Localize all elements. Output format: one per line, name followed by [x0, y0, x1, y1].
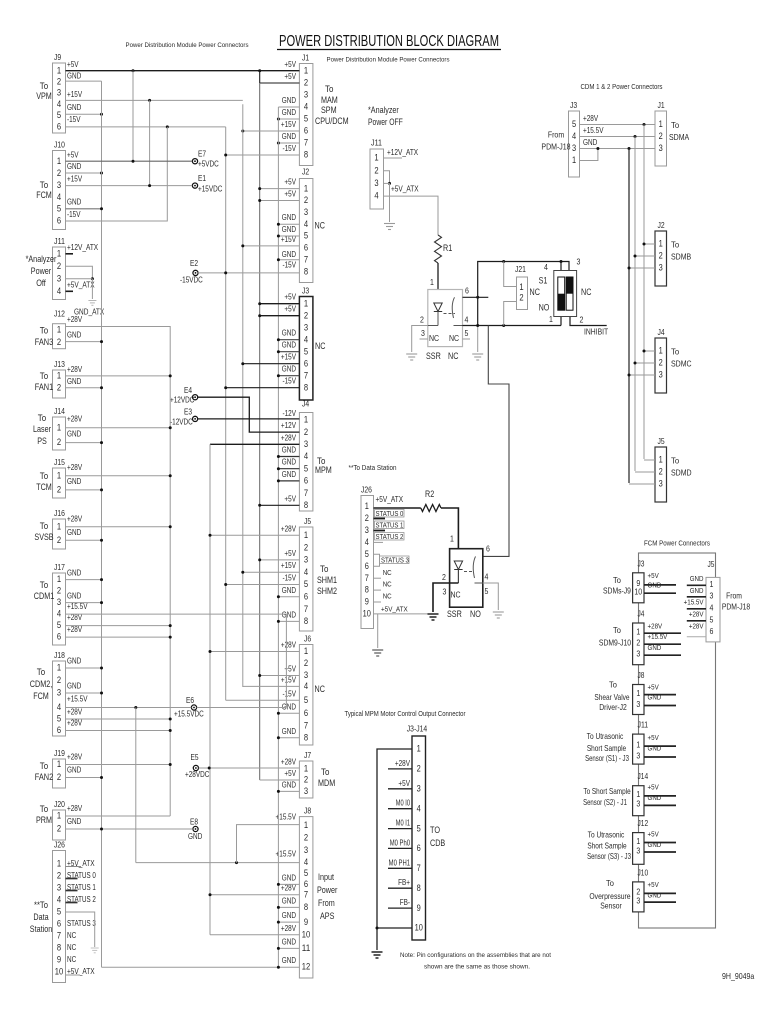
wire main GND vertical bus x=101.5	[101, 81, 103, 967]
wire GND J9.5 to gnd bus	[66, 113, 102, 115]
svg-text:+28V: +28V	[67, 708, 83, 717]
wire +28V J16.1	[66, 526, 171, 528]
svg-text:7: 7	[304, 721, 308, 731]
svg-text:To: To	[606, 878, 614, 888]
svg-text:6: 6	[304, 879, 308, 889]
wire GND J12.2	[66, 341, 102, 343]
svg-text:PRM: PRM	[36, 815, 52, 825]
svg-text:J3: J3	[302, 286, 309, 296]
svg-text:4: 4	[304, 857, 308, 867]
svg-text:Sensor (S3) - J3: Sensor (S3) - J3	[587, 851, 631, 861]
svg-text:GND: GND	[67, 71, 82, 80]
svg-text:2: 2	[659, 357, 663, 367]
wire +28V J19.1	[66, 764, 171, 766]
svg-text:-15V: -15V	[67, 210, 81, 219]
svg-text:To: To	[40, 180, 49, 190]
svg-text:3: 3	[57, 273, 61, 283]
svg-text:Power: Power	[317, 885, 337, 895]
svg-text:SHM2: SHM2	[317, 586, 337, 596]
svg-text:J21: J21	[515, 264, 526, 274]
svg-text:To: To	[671, 347, 679, 357]
svg-text:GND: GND	[282, 727, 297, 736]
wire J6.4 +15V from bus end	[243, 685, 300, 687]
svg-text:Power Distribution Module Powe: Power Distribution Module Power Connecto…	[327, 57, 451, 64]
wire J26ds pin1 to R2	[374, 507, 421, 509]
wire J11 analyzer pin3 to ground	[389, 183, 391, 222]
wire GND stubs J1.4 J1.5 J1.7	[278, 106, 299, 108]
svg-text:GND: GND	[282, 896, 297, 905]
svg-text:+15VDC: +15VDC	[198, 185, 223, 194]
svg-text:7: 7	[304, 488, 308, 498]
svg-text:+28V: +28V	[281, 758, 297, 767]
svg-text:1: 1	[57, 422, 61, 432]
svg-text:Laser: Laser	[33, 424, 51, 434]
svg-text:+28V: +28V	[583, 114, 599, 123]
svg-text:Power OFF: Power OFF	[368, 117, 403, 127]
svg-text:CDM1: CDM1	[34, 591, 54, 601]
svg-text:4: 4	[57, 609, 61, 619]
svg-text:1: 1	[57, 811, 61, 821]
svg-text:GND: GND	[282, 329, 297, 338]
wire J8.1 +15.5V riser	[237, 825, 300, 863]
svg-text:4: 4	[304, 567, 308, 577]
wire +15V vertical x=149.6 to J10.3/E1	[149, 100, 151, 185]
wire top bus y=261.5	[478, 262, 569, 326]
svg-text:SDMC: SDMC	[671, 359, 692, 369]
wire J26 left pin10 stub	[66, 974, 81, 976]
wire +5V link x=133 J9.1-J10.1	[132, 71, 134, 162]
svg-text:10: 10	[634, 587, 642, 597]
svg-text:2: 2	[57, 824, 61, 834]
svg-text:NC: NC	[451, 590, 461, 600]
wire GND J19.2	[66, 777, 102, 779]
svg-text:2: 2	[57, 675, 61, 685]
svg-text:NO: NO	[539, 303, 550, 313]
svg-text:7: 7	[304, 604, 308, 614]
svg-text:-15V: -15V	[282, 690, 296, 699]
ground below J26 (data station)	[372, 649, 383, 651]
svg-text:SSR: SSR	[426, 351, 441, 361]
svg-text:J4: J4	[638, 610, 645, 619]
svg-text:3: 3	[710, 590, 714, 600]
svg-text:2: 2	[57, 586, 61, 596]
svg-text:1: 1	[572, 155, 576, 165]
svg-text:4: 4	[485, 572, 489, 582]
svg-text:E2: E2	[190, 259, 198, 268]
wire J26 ds ground drop	[377, 614, 379, 648]
svg-text:FCM: FCM	[36, 190, 52, 200]
svg-text:+5V: +5V	[284, 72, 296, 81]
ground small below J26 bracket	[91, 947, 99, 949]
svg-text:1: 1	[304, 530, 308, 540]
wire SSR pin2 to ground	[428, 325, 438, 327]
svg-text:+28V: +28V	[281, 641, 297, 650]
resistor R2	[421, 505, 441, 512]
svg-text:3: 3	[572, 143, 576, 153]
wire J5.1 +28V from bus	[210, 534, 299, 536]
wire SSR2 pin2 to ground	[433, 583, 458, 612]
wire J11 left pin1 stub	[66, 253, 74, 255]
svg-text:5: 5	[485, 586, 489, 596]
svg-text:3: 3	[659, 143, 663, 153]
svg-text:6: 6	[304, 708, 308, 718]
wire GND J20.2 row through E8	[66, 828, 193, 830]
wire GND stubs J6.6 J6.8	[278, 712, 299, 714]
svg-text:5: 5	[304, 868, 308, 878]
svg-text:1: 1	[374, 153, 378, 163]
svg-text:GND: GND	[282, 132, 297, 141]
wire J8.10 +28V from bus end	[210, 934, 299, 936]
svg-text:J11: J11	[638, 721, 649, 730]
svg-text:1: 1	[549, 314, 553, 324]
svg-text:E8: E8	[190, 818, 198, 827]
svg-text:Shear Valve: Shear Valve	[594, 692, 629, 702]
opto relay SSR (data station)	[450, 549, 483, 608]
svg-text:2: 2	[659, 466, 663, 476]
svg-text:GND: GND	[282, 365, 297, 374]
svg-text:+5V: +5V	[648, 733, 659, 742]
svg-text:J5: J5	[304, 516, 311, 526]
svg-text:NO: NO	[470, 609, 481, 619]
wire J3.6 +15V dark from bus	[243, 363, 300, 365]
svg-text:5: 5	[304, 463, 308, 473]
svg-text:CDM2,: CDM2,	[30, 679, 52, 689]
svg-text:-15V: -15V	[282, 261, 296, 270]
svg-text:+15.5V: +15.5V	[583, 126, 604, 135]
svg-text:J1: J1	[658, 100, 665, 110]
svg-text:2: 2	[420, 315, 424, 325]
svg-text:7: 7	[417, 863, 421, 873]
wire J21 pin2 to bottom bus	[504, 302, 517, 326]
SSR coupling dashes (analyzer)	[444, 313, 456, 315]
svg-text:+5V: +5V	[648, 782, 659, 791]
svg-text:To: To	[40, 521, 49, 531]
svg-text:3: 3	[304, 322, 308, 332]
svg-text:From: From	[726, 591, 742, 601]
svg-text:+5V: +5V	[284, 190, 296, 199]
svg-text:-15V: -15V	[282, 144, 296, 153]
wire J8 (FCM) pin stub	[644, 694, 676, 696]
svg-text:1: 1	[417, 744, 421, 754]
svg-text:3: 3	[659, 478, 663, 488]
svg-text:4: 4	[57, 895, 61, 905]
wire E3 to J4.1 -12V	[198, 418, 300, 420]
svg-text:6: 6	[304, 126, 308, 136]
svg-text:2: 2	[659, 131, 663, 141]
svg-text:-15V: -15V	[67, 115, 81, 124]
svg-text:1: 1	[304, 415, 308, 425]
svg-text:3: 3	[57, 688, 61, 698]
svg-text:1: 1	[57, 371, 61, 381]
svg-text:SDM9-J10: SDM9-J10	[599, 638, 631, 648]
svg-text:GND: GND	[67, 657, 82, 666]
svg-text:GND: GND	[188, 832, 203, 841]
svg-text:SHM1: SHM1	[317, 575, 337, 585]
svg-text:GND: GND	[67, 162, 82, 171]
svg-text:*Analyzer: *Analyzer	[368, 105, 399, 115]
wire R2 to SSR2 pin1	[441, 508, 458, 549]
wire bottom bus y=325.5	[463, 325, 562, 327]
svg-text:10: 10	[302, 930, 310, 940]
svg-text:Input: Input	[318, 872, 334, 882]
wire J10 (FCM) pin stub	[644, 892, 676, 894]
wire +28V J18.5 J18.6	[66, 718, 171, 720]
svg-text:To Utrasonic: To Utrasonic	[587, 731, 624, 741]
svg-text:Station: Station	[30, 924, 53, 934]
wire +28V vertical bus x=210	[209, 444, 211, 935]
svg-text:To: To	[671, 456, 679, 466]
svg-text:8: 8	[304, 902, 308, 912]
svg-text:SSR: SSR	[447, 609, 462, 619]
svg-text:NC: NC	[383, 592, 392, 601]
wire J1.6 +15V from bus	[243, 130, 300, 132]
svg-text:J10: J10	[638, 868, 649, 877]
ground below J11 analyzer	[384, 223, 395, 225]
wire +5V bus drop to J1.2	[259, 71, 261, 83]
svg-text:+28V: +28V	[67, 625, 83, 634]
svg-text:TO: TO	[430, 825, 440, 835]
svg-text:1: 1	[659, 345, 663, 355]
svg-text:GND: GND	[282, 250, 297, 259]
svg-text:+12V_ATX: +12V_ATX	[387, 148, 419, 157]
svg-text:E6: E6	[186, 696, 194, 705]
wire +28V J12.1 to bus x=170.2	[66, 327, 171, 817]
svg-text:3: 3	[636, 799, 640, 809]
svg-text:GND: GND	[648, 891, 662, 900]
svg-text:8: 8	[417, 883, 421, 893]
svg-text:+5V_ATX: +5V_ATX	[67, 281, 95, 290]
svg-text:J8: J8	[304, 806, 311, 816]
svg-text:8: 8	[365, 585, 369, 595]
svg-text:POWER DISTRIBUTION BLOCK DIAGR: POWER DISTRIBUTION BLOCK DIAGRAM	[279, 33, 499, 50]
svg-text:10: 10	[55, 967, 63, 977]
svg-text:GND: GND	[282, 780, 297, 789]
svg-text:6: 6	[304, 358, 308, 368]
svg-text:7: 7	[365, 573, 369, 583]
wire J11 analyzer pin2-pin3 tie	[384, 171, 390, 184]
svg-text:GND: GND	[282, 96, 297, 105]
wire GND stub vertical bus x=278.4	[277, 107, 279, 967]
svg-text:J5: J5	[708, 560, 715, 569]
svg-text:3: 3	[636, 895, 640, 905]
svg-text:1: 1	[57, 156, 61, 166]
status label boxes (data station)	[375, 510, 405, 518]
svg-text:GND: GND	[67, 682, 82, 691]
svg-text:4: 4	[57, 192, 61, 202]
wire J5.4 +15V from bus	[243, 571, 300, 573]
wire J26 left pin5-pin6 bracket	[66, 912, 95, 947]
svg-text:GND: GND	[583, 138, 598, 147]
svg-text:+5V: +5V	[284, 769, 296, 778]
wire +5V J10.1 to E7	[66, 160, 193, 162]
svg-text:5: 5	[365, 549, 369, 559]
wire +15.5V J18.4 row through E6	[66, 707, 192, 709]
SSR diode (analyzer)	[434, 303, 442, 312]
svg-text:1: 1	[304, 66, 308, 76]
svg-text:9: 9	[304, 917, 308, 927]
svg-text:Data: Data	[33, 912, 48, 922]
wire J7.1 +28V from bus through E5	[199, 767, 300, 769]
svg-text:GND: GND	[282, 873, 297, 882]
svg-text:3: 3	[577, 257, 581, 267]
svg-text:Typical MPM Motor Control Outp: Typical MPM Motor Control Output Connect…	[345, 711, 467, 718]
svg-text:3: 3	[417, 784, 421, 794]
svg-text:GND: GND	[67, 817, 82, 826]
svg-text:1: 1	[636, 836, 640, 846]
svg-text:12: 12	[302, 962, 310, 972]
svg-text:2: 2	[417, 764, 421, 774]
svg-text:-15VDC: -15VDC	[180, 276, 203, 285]
wire CDM +28V vertical bus x=644	[643, 125, 645, 460]
svg-text:+12VDC: +12VDC	[170, 396, 195, 405]
wire INHIBIT from S1 pin2	[570, 317, 607, 326]
svg-text:1: 1	[57, 759, 61, 769]
svg-text:MDM: MDM	[318, 778, 335, 788]
svg-text:GND: GND	[282, 458, 297, 467]
svg-text:1: 1	[57, 470, 61, 480]
svg-text:2: 2	[304, 427, 308, 437]
svg-text:2: 2	[304, 542, 308, 552]
wire +15V vertical bus x=242.8	[242, 104, 244, 687]
svg-text:1: 1	[450, 534, 454, 544]
svg-text:5: 5	[417, 823, 421, 833]
svg-text:2: 2	[57, 871, 61, 881]
svg-text:GND: GND	[648, 744, 662, 753]
wire J2.8 -15V from E2 row	[198, 272, 299, 274]
svg-text:+15V: +15V	[67, 90, 83, 99]
svg-text:+15V: +15V	[281, 120, 297, 129]
test point E2	[193, 270, 198, 275]
svg-text:2: 2	[304, 658, 308, 668]
wire J7.2 +5V bus end	[260, 779, 300, 781]
svg-text:SVSB: SVSB	[34, 532, 53, 542]
wire J4 (FCM) pin stub	[644, 643, 681, 645]
svg-text:+5V_ATX: +5V_ATX	[381, 605, 408, 614]
svg-text:6: 6	[57, 919, 61, 929]
test point E6	[191, 705, 196, 710]
svg-text:J11: J11	[371, 138, 382, 148]
svg-text:To: To	[40, 761, 49, 771]
svg-text:+28VDC: +28VDC	[185, 770, 210, 779]
svg-text:5: 5	[465, 328, 469, 338]
wire drop to data station SSR	[483, 326, 509, 557]
wire GND J17.1	[66, 579, 102, 581]
svg-text:CDM 1 & 2 Power Connectors: CDM 1 & 2 Power Connectors	[581, 84, 663, 91]
svg-text:+5V: +5V	[284, 305, 296, 314]
svg-text:3: 3	[304, 786, 308, 796]
svg-text:To: To	[320, 564, 329, 574]
wire GND J10.5	[66, 208, 102, 210]
svg-text:-15V: -15V	[282, 377, 296, 386]
svg-text:2: 2	[304, 78, 308, 88]
svg-text:6: 6	[57, 632, 61, 642]
DIP switch S1	[554, 271, 577, 317]
svg-text:1: 1	[57, 663, 61, 673]
wire -15V link x=167.3 to J10.6	[66, 127, 168, 221]
svg-text:GND: GND	[282, 341, 297, 350]
svg-text:GND: GND	[690, 586, 704, 595]
svg-text:+28V: +28V	[281, 924, 297, 933]
svg-text:2: 2	[57, 261, 61, 271]
svg-text:4: 4	[304, 681, 308, 691]
svg-text:2: 2	[519, 293, 523, 303]
svg-text:GND_ATX: GND_ATX	[74, 308, 105, 317]
wire J3 (FCM) pin stub	[644, 592, 676, 594]
svg-text:VPM: VPM	[36, 91, 52, 101]
svg-text:NC: NC	[581, 287, 591, 297]
wire stub J3-J14 pin 2	[388, 768, 412, 770]
svg-text:+5V: +5V	[284, 549, 296, 558]
svg-text:3: 3	[57, 180, 61, 190]
svg-text:4: 4	[304, 219, 308, 229]
wire -15V J9.6	[66, 126, 226, 128]
svg-text:To: To	[671, 120, 679, 130]
svg-text:To: To	[37, 667, 46, 677]
svg-text:9: 9	[57, 955, 61, 965]
test point E1	[192, 183, 197, 188]
svg-text:2: 2	[442, 572, 446, 582]
svg-text:+5V: +5V	[67, 151, 79, 160]
svg-text:8: 8	[304, 732, 308, 742]
svg-text:J15: J15	[54, 457, 65, 467]
svg-text:8: 8	[304, 150, 308, 160]
opto relay SSR (analyzer)	[428, 290, 463, 347]
svg-text:GND: GND	[67, 528, 82, 537]
wire GND J18.1 J18.3	[66, 667, 102, 669]
svg-text:+15V: +15V	[281, 561, 297, 570]
svg-text:5: 5	[57, 907, 61, 917]
svg-text:STATUS 3: STATUS 3	[67, 919, 96, 928]
svg-text:2: 2	[365, 513, 369, 523]
svg-text:Driver-J2: Driver-J2	[599, 702, 627, 712]
svg-text:SDMs-J9: SDMs-J9	[603, 586, 631, 596]
wire J3.8 -15V dark	[226, 387, 300, 389]
wire J12 (FCM) pin stub	[644, 851, 676, 853]
wire CDM +15.5V J3.4 to J1.2	[580, 136, 656, 138]
svg-text:To: To	[40, 326, 49, 336]
svg-text:5: 5	[57, 110, 61, 120]
svg-text:M0 I0: M0 I0	[396, 799, 411, 808]
svg-text:6: 6	[304, 243, 308, 253]
wire J3.1 J3.2 +5V dark from bus	[260, 303, 300, 305]
svg-text:M0 I1: M0 I1	[396, 819, 410, 828]
svg-text:+15V: +15V	[281, 676, 297, 685]
wire J4.8 +5V dark from bus	[260, 504, 300, 506]
svg-text:E1: E1	[198, 174, 206, 183]
svg-text:GND: GND	[282, 586, 297, 595]
test point E4	[193, 395, 198, 400]
svg-text:To: To	[40, 81, 49, 91]
svg-text:GND: GND	[282, 446, 297, 455]
svg-text:To: To	[40, 580, 49, 590]
wire +28V J14.1	[66, 427, 171, 429]
svg-text:4: 4	[304, 334, 308, 344]
svg-text:+28V: +28V	[648, 621, 663, 630]
wire SSR pin5 NC stub	[463, 338, 471, 340]
svg-text:+15.5V: +15.5V	[67, 695, 88, 704]
svg-text:3: 3	[374, 178, 378, 188]
svg-text:1: 1	[365, 501, 369, 511]
svg-text:3: 3	[57, 883, 61, 893]
svg-text:E7: E7	[198, 150, 206, 159]
wire J6.1 +28V from bus	[210, 651, 299, 653]
svg-text:10: 10	[415, 923, 423, 933]
svg-text:Note: Pin configurations on t: Note: Pin configurations on the assembli…	[400, 952, 551, 959]
svg-text:PDM-J18: PDM-J18	[722, 602, 751, 612]
svg-text:1: 1	[636, 688, 640, 698]
svg-text:GND: GND	[67, 592, 82, 601]
svg-text:NC: NC	[67, 955, 77, 964]
